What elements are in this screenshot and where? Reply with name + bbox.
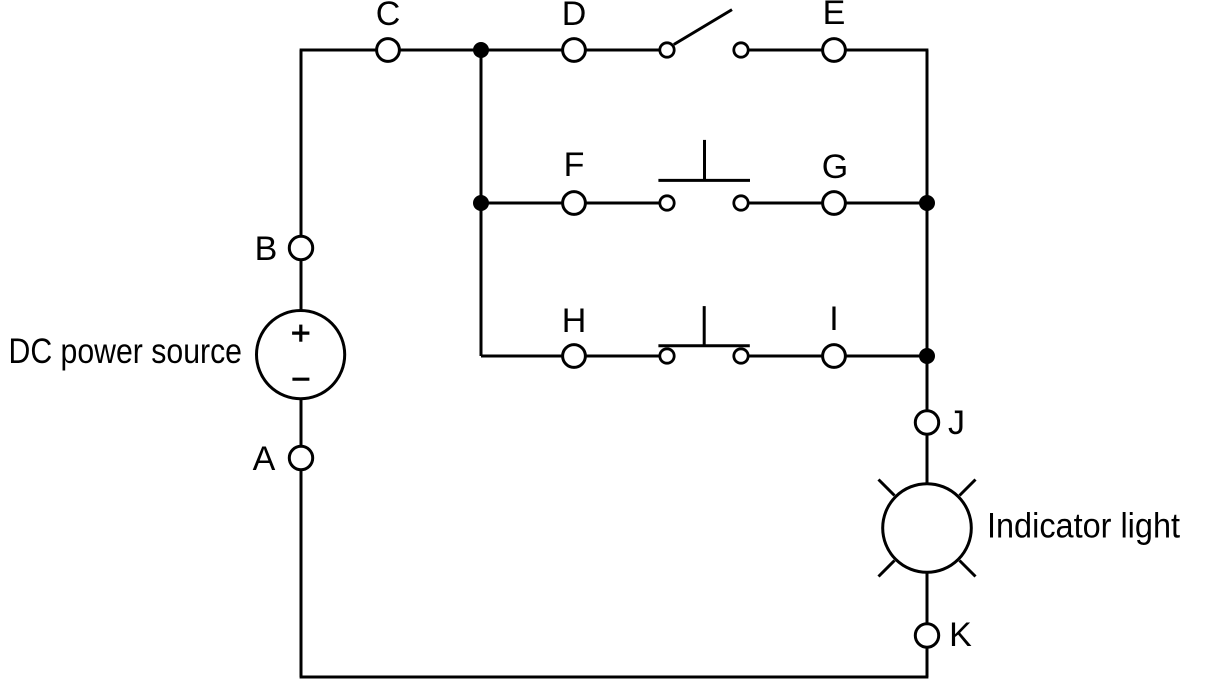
junction dot at G row right xyxy=(919,195,935,211)
wire: top-right horizontal (right switch contact to top-right corner) xyxy=(741,49,928,52)
node circle I xyxy=(823,345,846,368)
svg-text:C: C xyxy=(376,0,401,33)
terminal circle J xyxy=(915,411,938,434)
pushbutton contact circle left (H row) xyxy=(660,349,674,363)
terminal circle B xyxy=(289,236,312,259)
node circle G xyxy=(823,192,846,215)
svg-text:B: B xyxy=(255,230,278,268)
wire: F row left segment xyxy=(481,202,667,205)
lamp ray top-left xyxy=(879,480,895,496)
svg-text:DC power source: DC power source xyxy=(9,332,243,371)
wire: H row left segment xyxy=(481,355,667,358)
switch contact circle right of knife switch xyxy=(734,43,748,57)
switch blade (open knife switch between D and E) xyxy=(674,10,732,45)
pushbutton actuator between H and I (pressed, bridging contacts) xyxy=(658,306,749,346)
svg-text:K: K xyxy=(949,616,972,654)
pushbutton contact circle left (F row) xyxy=(660,196,674,210)
switch contact circle left of knife switch xyxy=(660,43,674,57)
svg-text:A: A xyxy=(253,440,276,478)
wire: bottom horizontal xyxy=(300,676,929,679)
junction dot at I row right xyxy=(919,348,935,364)
indicator light circle xyxy=(883,484,972,573)
pushbutton actuator between F and G (normally open) xyxy=(658,140,750,181)
lamp ray bottom-right xyxy=(960,561,976,577)
terminal circle A xyxy=(289,446,312,469)
wire: top-left horizontal (corner to left switch contact) xyxy=(300,49,667,52)
node circle E xyxy=(823,39,846,62)
plus sign inside source xyxy=(292,325,309,342)
pushbutton contact circle right (F row) xyxy=(734,196,748,210)
terminal circle K xyxy=(915,624,938,647)
svg-text:J: J xyxy=(948,404,965,442)
svg-text:Indicator light: Indicator light xyxy=(987,507,1180,546)
pushbutton contact circle right (H row) xyxy=(734,349,748,363)
wire: branch vertical from node at top to H row xyxy=(480,50,483,356)
node circle C xyxy=(377,39,400,62)
svg-text:E: E xyxy=(823,0,846,32)
wire: F row right segment xyxy=(741,202,927,205)
wire: left vertical (battery branch) xyxy=(300,50,303,677)
node circle F xyxy=(563,192,586,215)
wire: H row right segment xyxy=(741,355,927,358)
minus sign inside source xyxy=(292,378,309,381)
lamp ray top-right xyxy=(960,480,976,496)
svg-text:G: G xyxy=(822,148,848,186)
DC power source circle xyxy=(257,311,345,399)
svg-text:F: F xyxy=(564,146,585,184)
junction dot at node C-D branch xyxy=(473,42,489,58)
wire: right vertical (lamp branch) xyxy=(926,50,929,677)
svg-text:I: I xyxy=(829,300,838,338)
node circle H xyxy=(563,345,586,368)
junction dot at F row left xyxy=(473,195,489,211)
lamp ray bottom-left xyxy=(879,561,895,577)
node circle D xyxy=(563,39,586,62)
svg-text:H: H xyxy=(562,302,587,340)
svg-text:D: D xyxy=(562,0,587,33)
